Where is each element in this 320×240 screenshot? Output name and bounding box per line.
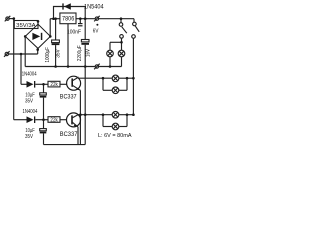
svg-text:1000µF: 1000µF <box>45 47 51 63</box>
svg-text:7806: 7806 <box>62 17 75 23</box>
svg-text:22k: 22k <box>50 82 58 88</box>
svg-text:L: 6V = 80mA: L: 6V = 80mA <box>98 133 132 139</box>
svg-text:1N4004: 1N4004 <box>23 109 38 115</box>
svg-text:BC337: BC337 <box>60 131 78 138</box>
svg-text:100nF: 100nF <box>67 30 81 36</box>
svg-text:35V: 35V <box>25 134 33 140</box>
svg-text:35V: 35V <box>56 49 62 58</box>
svg-text:35V: 35V <box>25 99 33 105</box>
svg-text:1N5404: 1N5404 <box>84 4 104 11</box>
svg-text:35V/3A: 35V/3A <box>16 23 35 29</box>
svg-text:1N4004: 1N4004 <box>22 71 37 77</box>
svg-text:BC337: BC337 <box>60 94 77 101</box>
svg-text:2200µF: 2200µF <box>77 45 83 61</box>
svg-text:16V: 16V <box>86 49 92 57</box>
svg-text:6V: 6V <box>93 28 99 34</box>
svg-text:22k: 22k <box>50 118 58 124</box>
